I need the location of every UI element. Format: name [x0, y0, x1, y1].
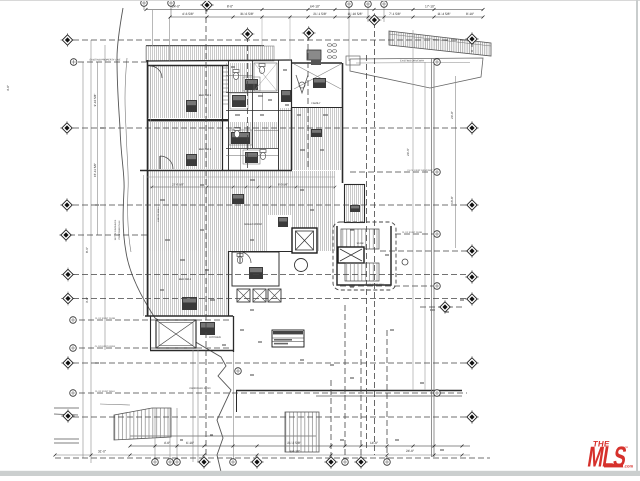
svg-text:PROPOSED PLAN: PROPOSED PLAN [118, 220, 121, 239]
svg-text:4'-0": 4'-0" [6, 85, 10, 91]
porch top rail [146, 45, 264, 47]
grid marker circle rc2 [434, 169, 441, 176]
patio wall inner [316, 395, 462, 397]
exterior stair bottom center [285, 412, 319, 452]
site vertical lines [82, 62, 84, 458]
grid marker diamond B3 [324, 455, 338, 469]
powder room white [232, 252, 279, 286]
grid marker diamond T2 [241, 27, 255, 41]
grid marker circle mc1 [235, 368, 242, 375]
left exterior wall [147, 60, 149, 316]
grid marker circle rc4 [434, 283, 441, 290]
hatched lower room floor [147, 251, 228, 316]
planter box top right [346, 56, 360, 65]
svg-text:21'-2 5/8": 21'-2 5/8" [287, 441, 300, 445]
grid marker circle bc4 [230, 459, 237, 466]
svg-text:.com: .com [624, 463, 634, 468]
grid marker diamond L6 [61, 292, 75, 306]
svg-text:GREAT ROOM: GREAT ROOM [244, 223, 262, 226]
grid marker circle bc3 [174, 459, 181, 466]
great room bottom wall [228, 251, 296, 253]
grid marker diamond L8 [61, 409, 75, 423]
site line lower [130, 445, 470, 447]
toilet fixtures [233, 70, 239, 80]
grid marker circle lc2 [70, 317, 77, 324]
svg-text:4'-6 5/8": 4'-6 5/8" [182, 12, 194, 16]
svg-text:11'-4 5/8": 11'-4 5/8" [437, 12, 450, 16]
svg-text:8'-10": 8'-10" [466, 12, 474, 16]
grid marker circle tc3 [346, 1, 353, 8]
family room top wall [292, 62, 342, 64]
grid marker diamond L4 [59, 228, 73, 242]
svg-text:24'-0": 24'-0" [406, 449, 414, 453]
stair treads lower [345, 263, 379, 281]
vanity counters [230, 93, 248, 109]
grid marker diamond L1 [61, 33, 75, 47]
wall between bedrooms [147, 119, 228, 121]
grid marker circle bc6 [384, 459, 391, 466]
grid marker diamond L3 [60, 198, 74, 212]
hatched great room floor [147, 171, 335, 251]
joist line great room [147, 176, 335, 178]
grid marker circle rc5 [434, 390, 441, 397]
grid marker diamond T1 [200, 0, 214, 12]
grid marker diamond T3 [302, 26, 316, 40]
dashed grid verticals [205, 8, 207, 460]
svg-text:CL OF EXIST CURB: CL OF EXIST CURB [402, 231, 423, 234]
grid marker diamond R3 [465, 244, 479, 258]
grid marker circle tc4 [365, 1, 372, 8]
svg-text:CL OF EXIST DRIVEWAY: CL OF EXIST DRIVEWAY [407, 169, 433, 172]
great room dimension line [150, 186, 335, 188]
svg-text:CL OF EXIST WALL: CL OF EXIST WALL [365, 283, 386, 286]
svg-text:TM: TM [625, 446, 628, 449]
svg-text:31'-0": 31'-0" [98, 450, 106, 454]
vestibule walls [345, 185, 365, 223]
core partition extra [226, 75, 252, 77]
bath core left wall [228, 60, 230, 170]
svg-text:MLS: MLS [586, 440, 629, 473]
round table [295, 259, 308, 272]
site line lowest [55, 454, 470, 456]
bath core mid wall [252, 60, 254, 148]
family room ceiling beams [294, 64, 341, 89]
hatched porch deck strip [146, 46, 274, 61]
grid marker diamond L5 [61, 268, 75, 282]
svg-text:EXISTING DRIVEWAY: EXISTING DRIVEWAY [400, 60, 425, 63]
grid marker diamond R7 [465, 356, 479, 370]
grid marker diamond B4 [354, 455, 368, 469]
grid marker circle bc5 [342, 459, 349, 466]
svg-text:EXISTING PROPERTY LINE: EXISTING PROPERTY LINE [90, 59, 121, 62]
right exterior wall [342, 63, 344, 183]
MLS logo [592, 439, 610, 448]
grid marker diamond R8 [465, 410, 479, 424]
svg-text:21'-1 5/8": 21'-1 5/8" [313, 12, 326, 16]
svg-text:24'-6": 24'-6" [406, 148, 410, 156]
kitchen skylight [156, 320, 196, 348]
svg-text:27'-6 5/8": 27'-6 5/8" [172, 183, 184, 187]
svg-text:31'-6 5/8": 31'-6 5/8" [240, 12, 253, 16]
svg-text:BED RM 4: BED RM 4 [179, 278, 192, 281]
svg-text:LINE OF WALL: LINE OF WALL [157, 206, 160, 222]
svg-text:SET OF DRAWINGS: SET OF DRAWINGS [114, 219, 117, 240]
svg-text:6'-10": 6'-10" [186, 441, 194, 445]
hatched bedroom A floor [148, 66, 222, 118]
bedroom top wall [147, 65, 228, 67]
bath partition h3 [226, 148, 278, 150]
grid marker diamond L7 [61, 356, 75, 370]
svg-text:CL OF EXIST CURB: CL OF EXIST CURB [95, 317, 116, 320]
hatched bedroom B floor [148, 122, 222, 169]
svg-text:14'-0": 14'-0" [370, 441, 378, 445]
svg-text:7'-1 5/8": 7'-1 5/8" [389, 12, 401, 16]
page top border [0, 0, 640, 2]
grid marker diamond T5 [465, 32, 479, 46]
grid marker circle lc4 [70, 390, 77, 397]
svg-text:KITCHEN: KITCHEN [209, 336, 221, 339]
hatched hall floor upper [279, 108, 342, 170]
grid marker circle rc1 [434, 59, 441, 66]
svg-text:3'-0": 3'-0" [85, 297, 89, 303]
svg-text:8'-0 5/8": 8'-0 5/8" [278, 183, 288, 187]
grid marker diamond T4 [367, 13, 381, 27]
bath partition h2 [226, 110, 292, 112]
exterior stair bottom left [114, 408, 171, 440]
kitchen bottom wall [150, 350, 233, 352]
door arc porch entry [150, 66, 162, 78]
svg-text:BED RM 3: BED RM 3 [199, 148, 212, 151]
hatched stair vestibule floor [345, 185, 364, 222]
circle leader stubs [143, 6, 145, 10]
svg-text:64'-10": 64'-10" [290, 450, 300, 454]
curb lines [54, 407, 79, 409]
patio step edge [130, 435, 316, 437]
elevator cab [338, 247, 364, 263]
top dimension line 2 [170, 16, 483, 18]
bath partition h1 [226, 92, 278, 94]
svg-text:16'-8": 16'-8" [450, 196, 454, 204]
door arc powder [240, 252, 251, 263]
furniture and cabinet blocks [186, 100, 197, 112]
page right border [636, 0, 638, 476]
door arc bedroom B [160, 156, 173, 169]
patio wall left stub [236, 390, 238, 412]
grid marker circle lc1 [70, 59, 77, 66]
grid marker circle bc1 [152, 459, 159, 466]
svg-text:BED RM 2: BED RM 2 [199, 94, 212, 97]
hatched bath floor 2 [227, 122, 253, 148]
svg-text:9'-10 5/8": 9'-10 5/8" [93, 94, 97, 107]
family room left wall [291, 60, 293, 170]
vent ovals [327, 44, 331, 47]
porch bottom wall [146, 60, 292, 61]
grid marker circle rc3 [434, 231, 441, 238]
lower room bottom wall [145, 315, 233, 317]
svg-text:PROPOSED PATIO: PROPOSED PATIO [189, 387, 210, 390]
bedroom bottom wall [140, 170, 292, 172]
svg-text:15'-11 5/8": 15'-11 5/8" [93, 163, 97, 177]
kitchen right wall [233, 316, 235, 352]
eave line left [143, 175, 145, 316]
svg-text:8'-6": 8'-6" [85, 247, 89, 253]
grid marker circle tc2 [168, 0, 175, 6]
second grade line [125, 58, 131, 252]
svg-text:64'-10": 64'-10" [310, 5, 320, 9]
grid marker diamond R5 [465, 292, 479, 306]
bath core right wall [278, 60, 280, 170]
patio wall long [236, 390, 462, 392]
stair treads upper [341, 229, 379, 249]
grid marker diamond R2 [465, 198, 479, 212]
elevator shaft [292, 228, 317, 253]
landing circle [402, 259, 408, 265]
elevated walkway deck hatched [389, 31, 491, 56]
stair enclosure walls [337, 226, 391, 285]
legend box [272, 330, 304, 347]
grid marker diamond B1 [197, 455, 211, 469]
grid marker circle tc1 [141, 0, 148, 6]
grid marker diamond R6 [438, 300, 452, 314]
kitchen white area [267, 215, 291, 251]
tub nook [296, 75, 308, 93]
dashed grid horizontals [73, 39, 467, 41]
grid marker circle tc5 [381, 1, 388, 8]
stair enclosure dashed roof outline [333, 222, 396, 290]
svg-text:FAMILY: FAMILY [311, 102, 320, 105]
grid marker circle lc3 [70, 345, 77, 352]
hatched bath floor 3 [254, 122, 278, 148]
stair treads by bedrooms [223, 67, 228, 69]
grid marker diamond R1 [465, 121, 479, 135]
svg-text:CL OF EXIST DRIVE: CL OF EXIST DRIVE [95, 345, 116, 348]
svg-text:24'-0": 24'-0" [450, 111, 454, 119]
hatched bath floor 1 [226, 63, 251, 92]
closet with X [254, 63, 277, 91]
fireplace [307, 50, 321, 60]
misc tiny marks [231, 66, 235, 68]
svg-text:CL OF EXIST WALK: CL OF EXIST WALK [95, 390, 116, 393]
svg-text:4'-0": 4'-0" [164, 441, 170, 445]
grid marker circle bc2 [167, 459, 174, 466]
top dimension line 1 [146, 9, 483, 11]
page bottom border band [0, 471, 640, 476]
grid marker diamond R4 [465, 270, 479, 284]
bottom dimension lines [129, 445, 132, 448]
svg-text:8'-0": 8'-0" [227, 5, 233, 9]
bedroom right wall [222, 66, 224, 170]
svg-text:STAIR: STAIR [357, 242, 364, 245]
kitchen left wall [150, 316, 152, 350]
grid marker diamond L2 [60, 121, 74, 135]
driveway wedge outline [350, 58, 483, 88]
svg-text:17'-10": 17'-10" [425, 5, 435, 9]
existing grade wavy line [117, 8, 231, 476]
svg-text:11'-10 5/8": 11'-10 5/8" [348, 12, 363, 16]
grid marker diamond B2 [250, 455, 264, 469]
glass line left wall [150, 66, 152, 170]
lower room right wall [228, 251, 230, 316]
family room bottom wall [292, 107, 342, 109]
laundry appliances [237, 289, 250, 302]
